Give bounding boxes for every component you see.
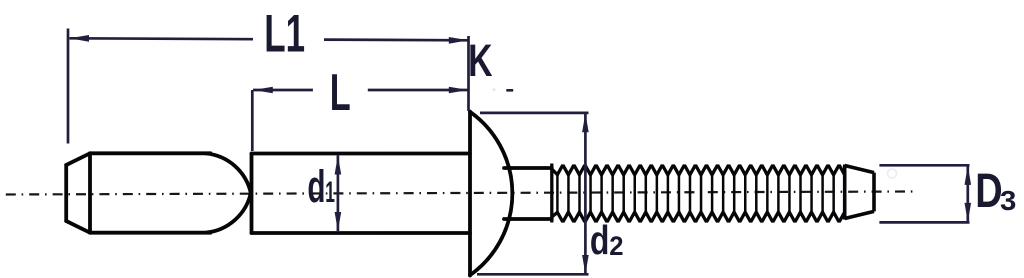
serrations top profile xyxy=(552,166,845,175)
d2 top arrow xyxy=(582,113,589,132)
d2 bottom extension line xyxy=(477,273,589,276)
L1 left arrow xyxy=(70,35,90,42)
L1 right arrow xyxy=(449,37,469,44)
L dimension line right segment xyxy=(368,89,469,92)
centerline xyxy=(0,192,913,195)
L extension line left xyxy=(251,90,254,151)
head flat face xyxy=(468,112,472,276)
serrations bottom profile xyxy=(552,212,845,221)
nose ogive bottom curve xyxy=(206,193,251,233)
body left face xyxy=(250,154,254,234)
d1 dimension line xyxy=(337,156,340,232)
D3 top extension line xyxy=(879,164,969,167)
nose vertical edge xyxy=(88,153,92,232)
D3 dimension line xyxy=(966,166,969,222)
svg-text:d: d xyxy=(307,162,325,213)
svg-text:2: 2 xyxy=(609,230,623,261)
mandrel tip end face xyxy=(872,173,876,212)
L1 dimension line right segment xyxy=(324,38,468,41)
nose bottom chamfer xyxy=(66,221,90,233)
nose bottom edge xyxy=(90,231,211,235)
L left arrow xyxy=(253,87,272,94)
L right arrow xyxy=(449,87,469,94)
svg-text:D: D xyxy=(975,165,1002,218)
watermark dot B xyxy=(493,88,496,91)
serration root lines xyxy=(557,175,833,213)
svg-text:d: d xyxy=(590,217,610,263)
nose top edge xyxy=(90,151,211,155)
D3 bottom extension line xyxy=(879,221,969,224)
rivet nose left face xyxy=(64,165,68,221)
head dome xyxy=(470,112,512,275)
mandrel bottom edge xyxy=(504,217,552,221)
svg-text:1: 1 xyxy=(325,176,335,209)
mandrel tip top taper xyxy=(845,166,874,173)
nose ogive top curve xyxy=(206,153,251,193)
nose top chamfer xyxy=(66,153,90,165)
mandrel top edge xyxy=(504,166,552,170)
mandrel tip left face xyxy=(843,165,847,220)
d2 bottom arrow xyxy=(582,255,589,274)
dimension graphics xyxy=(68,29,970,275)
d2 top extension line xyxy=(480,112,589,115)
serration boundary line xyxy=(550,164,553,223)
watermark dot A xyxy=(888,169,897,178)
svg-text:L1: L1 xyxy=(264,3,305,63)
mandrel tip bottom taper xyxy=(845,211,874,218)
K reference dash xyxy=(506,89,513,92)
body bottom edge d1 xyxy=(252,231,471,235)
d1 bottom arrow xyxy=(335,212,342,231)
L dimension line left segment xyxy=(253,89,313,92)
L1 dimension line left segment xyxy=(70,37,254,41)
svg-text:L: L xyxy=(330,64,351,122)
arrowheads xyxy=(70,35,972,274)
shared right extension line L1 L xyxy=(467,36,470,111)
d2 dimension line xyxy=(584,113,587,274)
d1 top arrow xyxy=(335,155,342,174)
svg-text:3: 3 xyxy=(1000,186,1016,217)
D3 top arrow xyxy=(965,166,972,185)
L1 left extension line xyxy=(67,29,70,144)
body top edge d1 xyxy=(252,152,471,156)
D3 bottom arrow xyxy=(965,203,972,222)
svg-text:K: K xyxy=(468,36,493,86)
